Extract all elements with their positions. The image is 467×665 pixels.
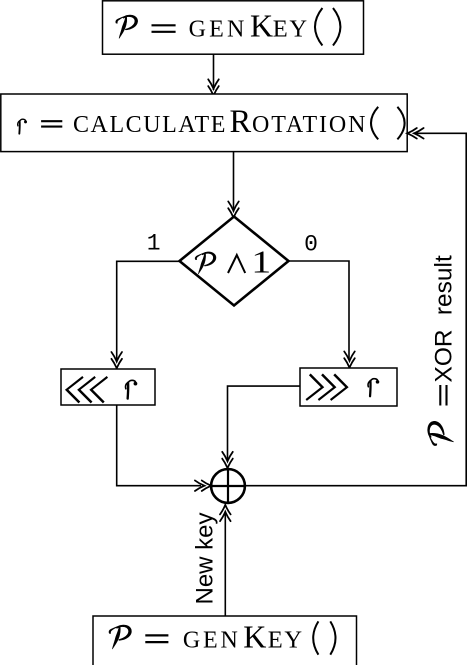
label B4: >>> r: [306, 374, 348, 400]
XOR node (circled plus): [211, 469, 246, 504]
arrowhead into XOR bottom: [220, 505, 231, 521]
wire B4 to XOR node: [228, 386, 301, 459]
arrowhead into B2: [208, 79, 219, 95]
svg-text:OTATION: OTATION: [252, 112, 367, 138]
wire diamond to right-shift box: [289, 261, 350, 360]
svg-text:EY: EY: [273, 16, 309, 43]
svg-text:CALCULATE: CALCULATE: [73, 112, 227, 138]
arrowhead into B2 right side: [407, 128, 423, 139]
process box B1: P = genKey() (top): [103, 1, 364, 54]
svg-text:0: 0: [304, 232, 318, 258]
process box B3: <<< r: [61, 369, 155, 405]
label in D1: P ^ 1: [195, 244, 271, 279]
label: P = XOR result (rotated): [428, 255, 458, 446]
wire B3 to XOR node: [117, 405, 201, 486]
svg-text:R: R: [230, 104, 252, 140]
svg-text:XOR result: XOR result: [431, 255, 458, 383]
process box B5: P = genKey() (bottom): [93, 616, 357, 665]
svg-text:GEN: GEN: [183, 628, 241, 654]
label B2: r = calculateRotation( ): [18, 104, 405, 140]
arrowhead into left-shift box: [111, 352, 122, 368]
label B1: P = genKey( ): [116, 8, 341, 46]
wire B5 (bottom genKey) to XOR: [224, 512, 226, 616]
svg-text:K: K: [250, 8, 273, 44]
svg-text:GEN: GEN: [189, 17, 248, 43]
svg-text:1: 1: [251, 244, 271, 279]
arrowhead into XOR top: [222, 452, 233, 468]
label B3: <<< r: [65, 377, 107, 403]
decision diamond D1: P and 1: [180, 217, 289, 306]
arrowhead into XOR left: [195, 480, 211, 491]
svg-text:New key: New key: [192, 512, 219, 604]
arrowhead into diamond: [228, 201, 239, 217]
svg-text:EY: EY: [268, 627, 304, 654]
wire diamond to left-shift box: [117, 261, 180, 359]
wire B1 to B2: [213, 55, 215, 91]
wire XOR feedback to B2: [245, 133, 466, 485]
svg-text:1: 1: [147, 231, 161, 257]
process box B4: >>> r: [300, 368, 397, 406]
label B5: P = genKey( ): [109, 619, 336, 655]
svg-text:K: K: [243, 619, 266, 655]
wire B2 to diamond: [233, 152, 235, 211]
arrowhead into right-shift box: [344, 351, 355, 367]
process box B2: r = calculateRotation(): [1, 94, 407, 152]
